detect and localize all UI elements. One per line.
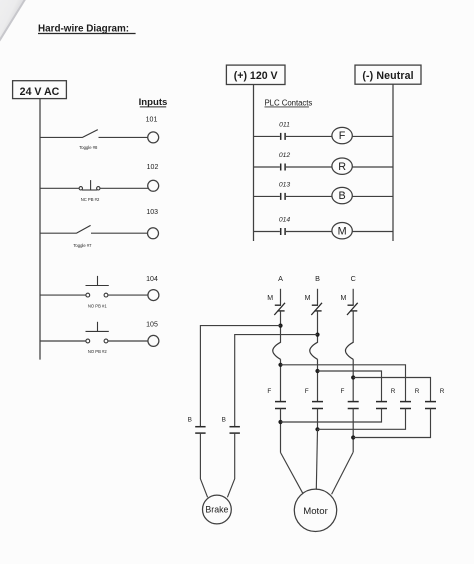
svg-text:M: M [267,295,273,302]
svg-text:F: F [339,130,346,142]
contact R3 [425,402,436,409]
wire phase A lower vertical [280,359,282,401]
svg-text:24 V AC: 24 V AC [20,86,60,98]
contact M phase A [267,295,285,315]
wire brake lead left [200,433,207,497]
wire brake A horizontal [200,326,280,427]
contact F1 [275,402,286,409]
wire F2 bottom lead [317,409,319,430]
contact B1 [195,427,205,433]
contact B2 [230,427,240,433]
svg-text:013: 013 [279,182,291,189]
box (-) Neutral [355,65,421,84]
wire phase A top [280,289,282,305]
pushbutton NO PB #1 [86,276,109,297]
svg-text:NO PB #1: NO PB #1 [88,303,108,308]
svg-text:M: M [340,295,346,302]
wire row104 left [40,294,86,296]
svg-text:(+) 120 V: (+) 120 V [234,70,278,82]
svg-text:B: B [338,190,345,202]
svg-text:C: C [351,274,356,283]
svg-text:Hard-wire Diagram:: Hard-wire Diagram: [38,23,129,34]
wire R2 bottom to F2 [318,409,406,430]
wire 24VAC bus vertical [39,99,41,360]
wire R3 bottom to F3 [353,409,430,438]
contact R2 [400,402,411,409]
switch Toggle #7 blade [76,225,91,233]
svg-text:(-) Neutral: (-) Neutral [362,70,413,82]
terminal circle 103 [148,228,159,239]
junction dot A brake tee [278,324,282,328]
wire B to R1 [318,371,382,402]
page curl top-left [0,0,25,42]
wire row103 left [40,232,76,234]
svg-text:105: 105 [146,322,158,329]
wire phase B lower vertical [317,359,319,401]
switch Toggle #8 blade [82,130,98,138]
terminal circle 101 [148,132,159,143]
wire F3 bottom lead [352,409,354,453]
wire phase A mid [280,311,282,343]
terminal circle 102 [148,180,159,191]
pushbutton NO PB #2 [86,322,109,343]
wire brake lead right [227,433,234,497]
svg-text:014: 014 [279,217,291,224]
svg-text:F: F [340,388,344,395]
overload squiggle B [310,342,318,359]
wire motor lead left [281,453,303,494]
wire C to R3 [353,378,430,402]
wire phase C top [352,289,354,305]
wire row101 right [99,136,148,138]
svg-text:101: 101 [146,117,158,124]
wire phase B mid [317,311,319,343]
svg-text:R: R [391,388,396,395]
contact M phase B [305,295,322,315]
rung 014 / M [254,217,394,239]
contact R1 [376,402,387,409]
rung 012 / R [254,152,394,174]
junction dot B reverse tee [315,369,319,373]
svg-text:M: M [305,295,311,302]
svg-text:NO PB #2: NO PB #2 [88,349,108,354]
overload squiggle A [273,342,281,359]
svg-text:M: M [338,225,347,237]
svg-text:102: 102 [147,164,159,171]
svg-text:103: 103 [146,209,158,216]
svg-text:012: 012 [279,152,291,159]
svg-text:F: F [305,388,309,395]
wire row102 left [40,187,79,189]
wire F1 bottom lead [280,409,282,453]
svg-text:B: B [222,416,226,423]
rung 011 / F [254,122,394,144]
label Inputs [139,97,168,108]
svg-text:A: A [278,274,283,283]
svg-text:R: R [338,161,346,173]
contact F3 [348,402,359,409]
svg-text:011: 011 [279,122,290,129]
box 24 V AC [13,81,67,99]
contact F2 [312,402,323,409]
svg-text:104: 104 [146,276,158,283]
wire row105 right [108,340,148,342]
wire brake B horizontal [235,335,318,427]
wire A to R2 [281,365,406,402]
svg-text:Toggle #8: Toggle #8 [79,145,98,150]
wire row105 left [40,340,86,342]
junction dot F3 bottom [351,435,355,439]
junction dot C reverse tee [351,375,355,379]
junction dot F2 bottom [315,427,319,431]
junction dot A reverse tee [278,363,282,367]
wire phase B top [317,289,319,305]
wire row103 right [91,232,148,234]
motor circle [294,489,336,531]
label PLC Contacts [265,98,313,107]
svg-text:Inputs: Inputs [139,97,168,108]
svg-text:PLC Contacts: PLC Contacts [265,98,313,107]
svg-text:Brake: Brake [205,505,228,515]
svg-text:Motor: Motor [303,506,328,517]
svg-text:B: B [188,416,192,423]
wire R1 bottom to F1 [281,409,382,423]
wire left ladder rail [253,85,255,242]
box (+) 120 V [226,65,285,84]
svg-text:B: B [315,274,320,283]
wire row101 left [40,136,82,138]
svg-text:NC PB #2: NC PB #2 [81,197,100,202]
wire phase C mid [352,311,354,343]
brake circle [203,495,232,524]
terminal circle 104 [148,290,159,301]
contact M phase C [340,295,357,315]
wire row104 right [108,294,148,296]
terminal circle 105 [148,335,159,346]
svg-text:R: R [440,388,445,395]
wire phase C lower vertical [352,359,354,401]
svg-text:Toggle #7: Toggle #7 [73,243,92,248]
svg-text:R: R [415,388,420,395]
wire right ladder rail [392,84,394,241]
wire row102 right [100,187,148,189]
svg-text:F: F [267,388,271,395]
title Hard-wire Diagram [38,23,136,34]
wire motor lead right [332,452,354,494]
pushbutton NC PB #2 [79,180,100,190]
overload squiggle C [345,342,353,359]
junction dot F1 bottom [278,420,282,424]
rung 013 / B [254,182,394,204]
wire motor lead mid [316,429,317,489]
junction dot B brake tee [315,333,319,337]
